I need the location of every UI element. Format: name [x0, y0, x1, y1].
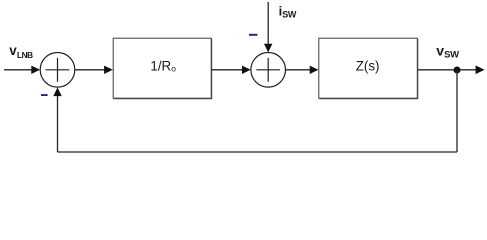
feedback wire: node down — [456, 70, 458, 152]
wire S2 to block Z(s) — [286, 69, 311, 71]
arrowhead feedback into S1 bottom — [53, 87, 61, 96]
svg-text:Z(s): Z(s) — [356, 58, 380, 73]
minus sign (blue) at S1 feedback input — [41, 94, 48, 96]
block Z(s) rectangle — [319, 38, 418, 98]
wire block 1/Ro to summing junction S2 — [212, 69, 243, 71]
wire S1 to block 1/Ro — [75, 69, 105, 71]
output arrowhead vSW — [476, 66, 485, 75]
block 1/Ro rectangle — [113, 38, 211, 98]
minus sign (blue) at S2 top input — [249, 34, 257, 36]
arrowhead into block 1/Ro — [104, 66, 113, 74]
block 1/Ro shadow edges — [114, 39, 212, 99]
plus sign inside S2 — [256, 58, 280, 82]
wire input to summing junction S1 — [4, 69, 32, 71]
wire iSW from top into S2 — [267, 2, 269, 44]
wire block Z(s) to output — [418, 69, 476, 71]
block Z(s) shadow edges — [319, 39, 418, 99]
summing junction S1 circle — [40, 53, 75, 88]
plus sign inside S1 — [46, 58, 70, 82]
arrowhead of iSW into S2 — [264, 44, 272, 53]
arrowhead into S1 — [31, 66, 40, 74]
node dot at vSW tap — [454, 67, 461, 74]
arrowhead into S2 — [242, 66, 251, 74]
feedback wire: left vertical up to S1 — [57, 96, 59, 152]
summing junction S2 circle — [251, 53, 286, 88]
feedback wire: bottom horizontal — [58, 151, 458, 153]
arrowhead into block Z(s) — [310, 66, 319, 74]
